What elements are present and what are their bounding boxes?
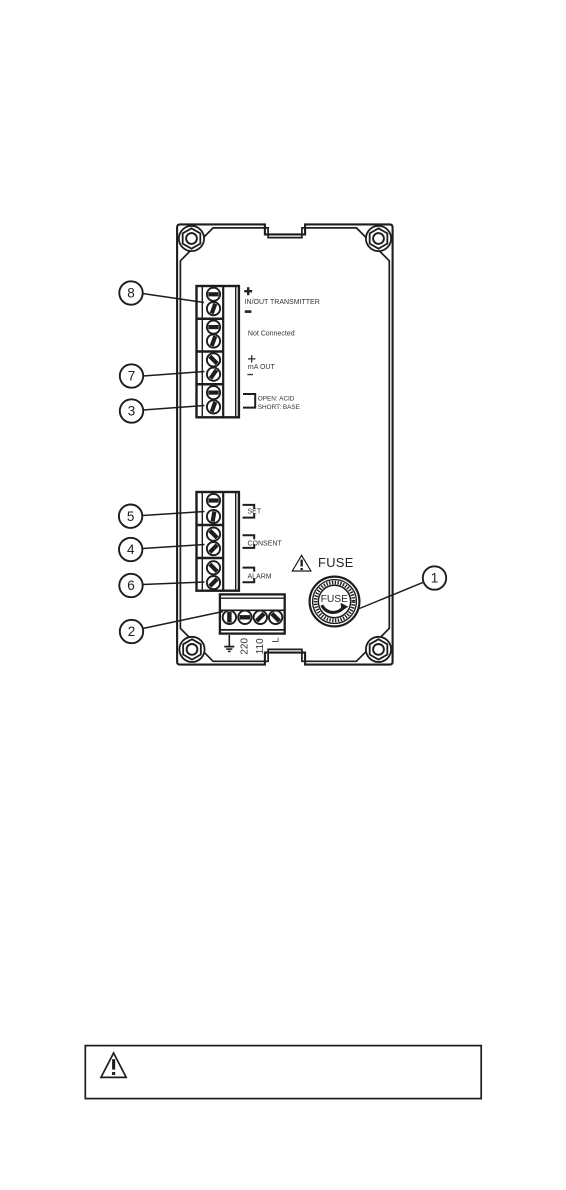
callout circle 7 — [120, 364, 143, 387]
svg-text:ALARM: ALARM — [248, 573, 272, 580]
screw 6 (mA OUT -) — [207, 368, 220, 381]
terminal block lower body — [197, 492, 239, 591]
minus sign bold (IN/OUT -) — [245, 310, 252, 313]
callout circle 8 — [119, 281, 142, 304]
bracket ALARM — [243, 568, 255, 583]
svg-text:220: 220 — [240, 638, 251, 655]
corner nut top-right — [366, 226, 391, 251]
svg-text:OPEN: ACID: OPEN: ACID — [258, 395, 295, 402]
svg-text:IN/OUT TRANSMITTER: IN/OUT TRANSMITTER — [245, 299, 320, 306]
fuse warning triangle — [292, 555, 311, 571]
svg-text:Not Connected: Not Connected — [248, 331, 295, 338]
terminal block bottom (power) — [220, 594, 285, 633]
bracket CONSENT — [243, 535, 255, 548]
leader line callout 8 — [143, 294, 205, 303]
leader line callout 4 — [143, 545, 205, 549]
screw ALARM bottom — [207, 576, 220, 589]
corner nut top-left — [179, 226, 204, 251]
screw CONSENT bottom — [207, 542, 220, 555]
warning note box — [85, 1046, 481, 1099]
screw 5 (mA OUT +) — [207, 353, 220, 366]
svg-text:FUSE: FUSE — [318, 555, 354, 570]
svg-text:2: 2 — [128, 624, 136, 639]
minus sign thin (mA OUT -) — [247, 374, 253, 375]
callout circle 5 — [119, 505, 142, 528]
svg-text:3: 3 — [128, 404, 136, 419]
svg-text:4: 4 — [127, 542, 135, 557]
bracket OPEN/SHORT — [243, 394, 255, 408]
screw power 2 (220) — [238, 611, 251, 624]
svg-text:5: 5 — [127, 509, 135, 524]
svg-text:6: 6 — [127, 578, 135, 593]
screw 2 (IN/OUT -) — [207, 302, 220, 315]
panel inner outline — [180, 228, 389, 661]
screw 8 (OPEN/SHORT bottom) — [207, 400, 220, 413]
svg-text:1: 1 — [431, 571, 439, 586]
plus sign thin (mA OUT +) — [248, 355, 255, 362]
panel outer outline — [177, 224, 393, 664]
svg-text:L: L — [271, 637, 282, 642]
svg-text:CONSENT: CONSENT — [248, 540, 283, 547]
screw 4 (NC bottom) — [207, 334, 220, 347]
screw SET top — [207, 494, 220, 507]
leader line callout 2 — [143, 612, 223, 629]
leader line callout 1 — [360, 582, 425, 609]
callout circle 3 — [120, 399, 143, 422]
ground symbol — [224, 635, 234, 651]
screw 1 (IN/OUT +) — [207, 288, 220, 301]
leader line callout 6 — [143, 582, 205, 585]
callout circle 6 — [119, 574, 142, 597]
svg-text:mA OUT: mA OUT — [248, 364, 276, 371]
plus sign bold (IN/OUT +) — [244, 287, 252, 295]
leader line callout 5 — [143, 512, 205, 516]
screw 3 (NC top) — [207, 321, 220, 334]
callout circle 4 — [119, 538, 142, 561]
screw SET bottom — [207, 510, 220, 523]
warning note triangle — [101, 1053, 126, 1077]
screw power 4 (L) — [269, 611, 282, 624]
leader line callout 3 — [143, 406, 205, 411]
svg-text:SET: SET — [248, 509, 262, 516]
bracket SET — [243, 505, 255, 518]
corner nut bottom-right — [366, 637, 391, 662]
fuse holder — [310, 577, 360, 627]
svg-text:8: 8 — [127, 286, 135, 301]
terminal block upper body — [197, 286, 239, 417]
corner nut bottom-left — [179, 637, 204, 662]
screw CONSENT top — [207, 528, 220, 541]
screw ALARM top — [207, 561, 220, 574]
svg-text:7: 7 — [128, 369, 136, 384]
svg-text:FUSE: FUSE — [321, 594, 349, 605]
callout circle 2 — [120, 620, 143, 643]
leader line callout 7 — [143, 372, 205, 377]
svg-text:SHORT: BASE: SHORT: BASE — [258, 404, 300, 411]
screw power 3 (110) — [254, 611, 267, 624]
screw 7 (OPEN/SHORT top) — [207, 386, 220, 399]
callout circle 1 — [423, 566, 446, 589]
svg-text:110: 110 — [255, 638, 266, 654]
screw power 1 (earth) — [223, 611, 236, 624]
